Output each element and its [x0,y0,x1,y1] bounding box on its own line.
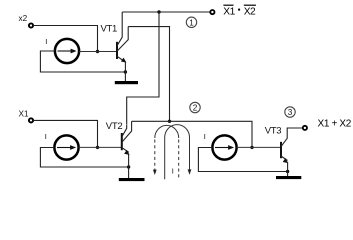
wire node 2 rail [132,121,252,147]
ground VT2 [119,178,145,181]
current arrow loop A (dashed state) [153,125,179,180]
VT2 collector 1 [122,124,127,137]
junction CS3 loop / VT3 emitter [286,170,289,173]
node label 1 [186,17,196,27]
VT2 emitter [122,148,130,179]
wire CS2 left loop to emitter node [40,148,128,168]
junction VT2 collector1 / node1 rail [157,10,160,13]
output terminal node 1 [210,10,214,14]
junction CS2 loop / VT2 emitter [127,165,130,168]
current source I3 [212,135,236,159]
transistor VT3 base bar [280,142,282,158]
svg-text:I: I [45,132,47,141]
wire X1 input to base node [33,120,97,146]
svg-text:I: I [45,37,47,46]
svg-text:1: 1 [189,18,194,27]
VT1 emitter [117,56,126,81]
wire CS3 to VT3 base [237,146,281,148]
VT1 collector 1 [117,12,122,46]
junction collector2 / node2 rail [168,120,171,123]
VT1 collector 2 [117,27,128,52]
node label 2 [190,102,200,112]
svg-text:X1: X1 [223,7,235,18]
wire CS3 left loop to emitter node [198,148,287,172]
wire X2 input to base node [33,26,97,51]
junction node2 / VT3 base wire [250,146,253,149]
VT2 collector 2 [122,121,132,142]
wire VT1 collector2 to node 2 [128,27,169,121]
transistor VT1 base bar [116,42,118,59]
svg-text:x2: x2 [19,14,28,23]
current source I2 [54,135,78,159]
svg-text:VT2: VT2 [106,121,123,132]
wire CS1 to VT1 base [79,51,116,53]
svg-text:I: I [204,132,206,141]
svg-text:3: 3 [288,108,293,117]
VT3 collector [281,128,303,147]
node junction X1/base [96,146,99,149]
VT3 emitter [281,156,288,176]
output terminal node 3 [303,126,307,130]
junction CS1 loop / VT1 emitter [124,70,127,73]
svg-text:2: 2 [193,104,198,113]
svg-text:X2: X2 [244,7,256,18]
ground VT1 [115,81,138,84]
svg-text:VT1: VT1 [101,24,118,35]
transistor VT2 base bar [121,133,123,150]
output label /X1*/X2 [223,5,256,17]
current arrow loop B (active state) [165,125,192,180]
svg-text:I: I [172,166,174,175]
wire VT2 collector1 riser [127,12,159,124]
wire CS1 left loop to emitter node [40,51,125,72]
ground VT3 [276,176,301,179]
input terminal X1 [29,118,33,122]
svg-text:X1: X1 [19,109,29,118]
node junction X2/base [96,50,99,53]
wire CS2 to VT2 base [79,146,121,148]
current source I1 [55,39,79,63]
node label 3 [285,107,295,117]
svg-text:X1 + X2: X1 + X2 [318,119,352,130]
input terminal X2 [29,23,33,27]
wire node 1 top rail [122,11,210,13]
svg-text:VT3: VT3 [265,126,282,137]
